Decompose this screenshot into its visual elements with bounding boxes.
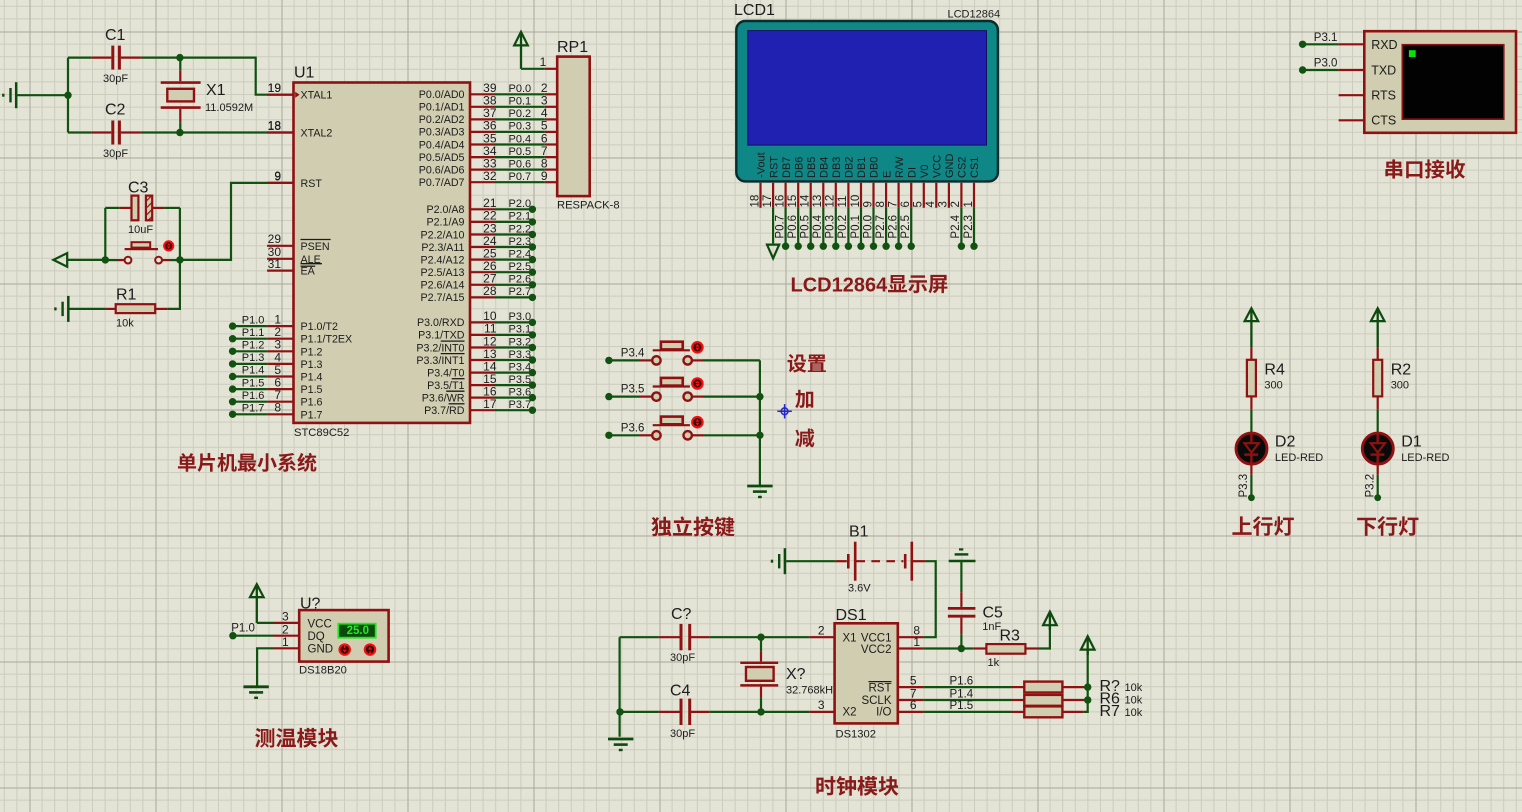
pin ALE (30)	[267, 245, 322, 266]
svg-text:28: 28	[483, 284, 497, 298]
svg-text:P1.5: P1.5	[301, 384, 323, 396]
svg-text:P1.3: P1.3	[242, 352, 265, 364]
svg-text:P3.3/INT1: P3.3/INT1	[416, 355, 464, 367]
svg-text:P0.4: P0.4	[812, 214, 824, 238]
svg-text:3.6V: 3.6V	[848, 583, 871, 595]
LCD pin E (8)	[875, 171, 893, 250]
origin marker	[777, 404, 791, 418]
svg-text:R1: R1	[116, 286, 137, 303]
LED D1 LED-RED	[1362, 433, 1449, 464]
svg-text:11: 11	[837, 196, 849, 208]
svg-text:RESPACK-8: RESPACK-8	[557, 200, 620, 212]
crystal X1 11.0592M	[161, 58, 253, 133]
svg-text:P3.5/T1: P3.5/T1	[427, 380, 464, 392]
wire LED to node P3.2	[1377, 463, 1379, 495]
svg-text:P3.0/RXD: P3.0/RXD	[417, 317, 465, 329]
svg-text:GND: GND	[944, 154, 956, 179]
svg-text:2: 2	[818, 623, 825, 637]
pin P0.3/AD3 (36) wire to RP1 pin 5	[419, 119, 557, 139]
node P3.2	[1364, 474, 1381, 501]
svg-text:P1.4: P1.4	[301, 372, 323, 384]
wire C1 to node	[141, 56, 180, 58]
svg-text:RST: RST	[768, 156, 780, 178]
wire button to common	[692, 434, 760, 436]
pin P0.4/AD4 (35) wire to RP1 pin 6	[419, 131, 557, 151]
wire R6 to rail	[1062, 699, 1087, 701]
svg-text:VCC: VCC	[308, 618, 332, 630]
svg-text:P0.5: P0.5	[800, 215, 812, 239]
svg-text:5: 5	[913, 201, 925, 207]
wire battery to VCC1	[923, 561, 936, 637]
wire resistor to LED	[1250, 409, 1252, 432]
svg-text:RXD: RXD	[1371, 38, 1397, 52]
pin P2.4/A12 (25)	[421, 246, 537, 266]
svg-text:P0.5: P0.5	[509, 146, 532, 158]
pin P0.6/AD6 (33) wire to RP1 pin 8	[419, 156, 557, 176]
svg-text:6: 6	[900, 201, 912, 207]
pin P0.7/AD7 (32) wire to RP1 pin 9	[419, 169, 557, 189]
svg-text:P3.3: P3.3	[509, 349, 532, 361]
svg-text:31: 31	[268, 257, 282, 271]
wire GND pin 1 to ground	[257, 648, 299, 685]
svg-text:P0.0: P0.0	[509, 83, 532, 95]
pin P3.2/INT0 (12)	[416, 334, 536, 354]
pin P3.1/TXD (11)	[418, 322, 536, 342]
svg-text:RTS: RTS	[1371, 89, 1396, 103]
wire R? to rail	[1062, 686, 1087, 688]
caption MCU minimal system	[178, 453, 316, 472]
svg-text:P3.4: P3.4	[509, 361, 532, 373]
caption independent keys	[651, 516, 734, 536]
caption LCD12864 display	[791, 274, 948, 296]
svg-text:10: 10	[850, 195, 862, 208]
svg-text:R7: R7	[1100, 703, 1121, 720]
svg-text:P0.1: P0.1	[509, 96, 532, 108]
svg-text:VCC2: VCC2	[861, 644, 892, 656]
LCD pin DB3 (12)	[825, 157, 843, 250]
pin P1.4 (5)	[229, 363, 323, 384]
LCD pin CS2 (2)	[950, 157, 968, 250]
svg-text:11.0592M: 11.0592M	[205, 102, 253, 114]
pin P2.5/A13 (26)	[421, 259, 537, 279]
wire button to common	[692, 359, 760, 361]
LCD pin DB2 (11)	[837, 157, 855, 250]
svg-text:DB4: DB4	[819, 157, 831, 178]
pin 7 wire P1.4 to R6	[898, 686, 1025, 700]
push button P3.6	[652, 417, 702, 440]
svg-text:P0.6/AD6: P0.6/AD6	[419, 164, 465, 176]
svg-text:VCC: VCC	[932, 155, 944, 178]
caption plus	[795, 390, 813, 409]
svg-text:P1.2: P1.2	[301, 346, 323, 358]
svg-text:P1.4: P1.4	[950, 688, 974, 700]
svg-text:PSEN: PSEN	[301, 241, 330, 253]
LCD pin DB0 (9)	[862, 157, 880, 250]
svg-text:DB2: DB2	[844, 157, 856, 178]
svg-text:-Vout: -Vout	[756, 152, 768, 178]
pin RST (9)	[267, 169, 322, 190]
svg-text:10k: 10k	[1125, 682, 1143, 694]
svg-text:RP1: RP1	[557, 39, 588, 56]
svg-text:P2.0: P2.0	[509, 198, 532, 210]
pin EA (31)	[267, 257, 316, 278]
wire power to VCC pin 3	[257, 622, 299, 624]
pin P2.1/A9 (22)	[426, 209, 536, 229]
svg-text:C4: C4	[670, 683, 691, 700]
svg-text:LCD1: LCD1	[734, 2, 775, 19]
wire C3 left to button	[104, 208, 106, 260]
temperature sensor U? DS18B20	[299, 596, 389, 677]
pin P3.4/T0 (14)	[427, 359, 536, 379]
LCD LCD1 LCD12864	[734, 2, 1000, 181]
pin PSEN (29)	[267, 232, 331, 253]
svg-text:25.0: 25.0	[347, 625, 369, 637]
ground (DS18B20)	[243, 687, 268, 698]
svg-text:P2.1/A9: P2.1/A9	[426, 217, 464, 229]
battery B1 3.6V	[835, 523, 925, 594]
svg-text:3: 3	[818, 698, 825, 712]
power arrow (pull-up rail)	[1081, 636, 1095, 655]
pin P3.5/T1 (15)	[427, 372, 536, 392]
svg-text:P1.5: P1.5	[242, 377, 265, 389]
resistor R2 300	[1373, 347, 1411, 409]
svg-text:9: 9	[274, 169, 281, 183]
svg-text:CS2: CS2	[957, 157, 969, 178]
wire C3 right to button/R1	[179, 208, 181, 260]
ground (above C5)	[949, 549, 976, 561]
wire X2 row	[620, 711, 835, 713]
svg-text:300: 300	[1391, 379, 1409, 391]
wire R1 to button node	[167, 260, 180, 309]
pin P1.6 (7)	[229, 388, 323, 409]
node rail R?	[1084, 683, 1091, 690]
caption set	[788, 354, 826, 373]
svg-text:2: 2	[950, 201, 962, 207]
svg-text:LED-RED: LED-RED	[1275, 452, 1323, 464]
svg-text:C3: C3	[128, 180, 149, 197]
LCD pin VCC (4)	[925, 155, 943, 208]
svg-text:P1.7: P1.7	[242, 403, 265, 415]
LCD pin DB7 (16)	[774, 157, 792, 250]
node button right	[176, 256, 183, 263]
pin marker XTAL1	[295, 92, 299, 98]
node P3.3	[1238, 474, 1255, 501]
LCD pin V0 (5)	[913, 165, 931, 208]
wire ground to junction	[17, 94, 68, 96]
node XTAL2 junction	[176, 129, 183, 136]
svg-text:P2.3: P2.3	[509, 236, 532, 248]
pin number 1	[540, 55, 547, 69]
svg-text:12: 12	[825, 195, 837, 208]
pin number 18	[268, 119, 282, 133]
svg-text:VCC1: VCC1	[861, 633, 892, 645]
resistor R? 10k	[1024, 682, 1062, 693]
svg-text:P0.3/AD3: P0.3/AD3	[419, 127, 465, 139]
svg-text:10k: 10k	[1125, 695, 1143, 707]
wire P1.0 to DQ pin 2	[233, 635, 299, 637]
svg-text:ALE: ALE	[301, 254, 321, 266]
svg-text:R3: R3	[1000, 628, 1021, 645]
wire left vertical to ground	[618, 637, 620, 737]
svg-text:C1: C1	[105, 27, 126, 44]
node C5/VCC2	[958, 645, 965, 652]
svg-text:P0.7: P0.7	[774, 215, 786, 239]
svg-text:SCLK: SCLK	[861, 695, 891, 707]
svg-text:32.768kHz: 32.768kHz	[786, 684, 839, 696]
svg-text:P1.6: P1.6	[301, 397, 323, 409]
resistor R4 300	[1247, 347, 1285, 409]
LCD pin DI (6)	[900, 167, 918, 250]
svg-text:P3.4/T0: P3.4/T0	[427, 367, 464, 379]
LCD pin DB1 (10)	[850, 157, 868, 250]
svg-text:P0.7/AD7: P0.7/AD7	[419, 177, 465, 189]
svg-text:10uF: 10uF	[128, 224, 153, 236]
svg-text:P1.1: P1.1	[242, 327, 265, 339]
svg-text:DB5: DB5	[806, 157, 818, 178]
wire common vertical to ground	[759, 360, 761, 485]
microcontroller U1 STC89C52	[294, 65, 471, 440]
svg-text:P1.0: P1.0	[231, 623, 255, 635]
svg-text:17: 17	[762, 195, 774, 208]
wire P3.5 to button	[609, 396, 652, 398]
svg-text:4: 4	[925, 201, 937, 208]
power arrow (R4)	[1245, 308, 1259, 347]
rtc DS1 DS1302	[835, 607, 898, 740]
svg-text:C2: C2	[105, 102, 126, 119]
ground (clock)	[608, 739, 633, 750]
ground (left of C1/C2)	[3, 82, 16, 108]
svg-text:P2.6/A14: P2.6/A14	[421, 280, 465, 292]
svg-text:DS1302: DS1302	[836, 728, 876, 740]
node P1.0	[229, 623, 255, 640]
svg-text:1: 1	[913, 635, 920, 649]
svg-text:C?: C?	[671, 606, 692, 623]
power arrow (R2)	[1371, 308, 1385, 347]
wire node to XTAL2 pin	[141, 131, 294, 133]
svg-text:GND: GND	[308, 644, 334, 656]
svg-text:DS1: DS1	[836, 607, 867, 624]
pin P3.7/RD (17)	[424, 397, 536, 417]
pin number 3	[818, 698, 825, 712]
power arrow (DS18B20)	[250, 584, 264, 623]
node P3.4	[605, 348, 645, 365]
svg-text:DS18B20: DS18B20	[299, 664, 347, 676]
wire LED to node P3.3	[1250, 463, 1252, 495]
svg-text:P2.4: P2.4	[509, 248, 532, 260]
pin 6 wire P1.5 to R7	[898, 698, 1025, 712]
svg-text:U?: U?	[300, 596, 321, 613]
svg-text:P3.6: P3.6	[621, 422, 645, 434]
svg-text:P3.7: P3.7	[509, 399, 532, 411]
serial terminal (virtual terminal)	[1364, 31, 1516, 133]
capacitor C? 30pF	[659, 606, 710, 664]
svg-text:P3.0: P3.0	[509, 311, 532, 323]
labels R? R6 R7 10k	[1100, 678, 1143, 720]
pin P2.6/A14 (27)	[421, 272, 537, 292]
svg-text:300: 300	[1264, 379, 1282, 391]
LED D2 LED-RED	[1236, 433, 1323, 464]
pin number 3	[282, 610, 289, 624]
svg-text:XTAL1: XTAL1	[301, 90, 333, 102]
svg-text:P1.0/T2: P1.0/T2	[301, 321, 338, 333]
capacitor C2 30pF	[68, 102, 141, 160]
svg-text:P0.6: P0.6	[509, 158, 532, 170]
svg-text:I/O: I/O	[876, 707, 891, 719]
svg-text:6: 6	[910, 698, 917, 712]
svg-text:P1.4: P1.4	[242, 365, 265, 377]
svg-text:P2.5/A13: P2.5/A13	[421, 267, 465, 279]
pin P1.7 (8)	[229, 401, 323, 422]
pin 5 wire P1.6 to R?	[898, 673, 1025, 687]
svg-text:P2.0/A8: P2.0/A8	[426, 204, 464, 216]
wire P3.0 to TXD	[1299, 58, 1364, 74]
svg-text:3: 3	[938, 201, 950, 207]
power arrow (RP1 pin 1)	[514, 32, 528, 69]
caption lamp	[1232, 516, 1293, 536]
svg-text:EA: EA	[301, 266, 316, 278]
svg-text:30pF: 30pF	[670, 728, 695, 740]
svg-text:P0.7: P0.7	[509, 171, 532, 183]
svg-text:DI: DI	[906, 167, 918, 178]
svg-text:DB0: DB0	[869, 157, 881, 178]
svg-text:P0.3: P0.3	[825, 215, 837, 239]
svg-text:DB3: DB3	[831, 157, 843, 178]
svg-text:8: 8	[274, 401, 281, 415]
svg-text:X?: X?	[786, 666, 806, 683]
wire button to common	[692, 396, 760, 398]
caption serial receive	[1385, 159, 1465, 178]
svg-text:P0.4: P0.4	[509, 133, 532, 145]
wire R7 to rail	[1062, 650, 1087, 712]
pin P1.1/T2EX (2)	[229, 325, 352, 346]
resistor R1 10k	[70, 286, 168, 329]
pin P0.0/AD0 (39) wire to RP1 pin 2	[419, 81, 557, 101]
pin P0.1/AD1 (38) wire to RP1 pin 3	[419, 94, 557, 114]
svg-text:30pF: 30pF	[103, 148, 128, 160]
svg-text:1: 1	[963, 201, 975, 207]
pin P1.5 (6)	[229, 376, 323, 397]
svg-text:P1.3: P1.3	[301, 359, 323, 371]
pin number 2	[282, 622, 289, 636]
svg-text:30pF: 30pF	[103, 73, 128, 85]
svg-text:P2.1: P2.1	[509, 211, 532, 223]
svg-text:DB1: DB1	[856, 157, 868, 178]
svg-text:DB6: DB6	[793, 157, 805, 178]
svg-text:E: E	[881, 171, 893, 178]
pin number 19	[268, 81, 282, 95]
svg-text:P3.2: P3.2	[1364, 474, 1376, 498]
pin VCC2 (1) wire to R3	[898, 635, 962, 649]
svg-text:P3.1: P3.1	[509, 324, 532, 336]
ground (buttons)	[747, 486, 772, 497]
capacitor C1 30pF	[68, 27, 141, 85]
svg-text:P3.7/RD: P3.7/RD	[424, 405, 465, 417]
svg-text:LED-RED: LED-RED	[1401, 452, 1449, 464]
svg-text:D2: D2	[1275, 433, 1296, 450]
resistor R3 1k	[961, 628, 1038, 670]
pin P2.0/A8 (21)	[426, 196, 536, 216]
node button left	[102, 256, 109, 263]
ground (left of R1)	[55, 296, 68, 322]
svg-text:DQ: DQ	[308, 631, 325, 643]
svg-text:P0.2/AD2: P0.2/AD2	[419, 114, 465, 126]
svg-text:P0.1: P0.1	[850, 215, 862, 239]
svg-text:P0.0: P0.0	[862, 215, 874, 239]
svg-text:LCD12864: LCD12864	[791, 274, 889, 296]
pin P2.7/A15 (28)	[421, 284, 537, 304]
svg-text:9: 9	[541, 169, 548, 183]
pin P0.2/AD2 (37) wire to RP1 pin 4	[419, 106, 557, 126]
svg-text:C5: C5	[983, 605, 1004, 622]
svg-text:STC89C52: STC89C52	[294, 427, 349, 439]
svg-text:P2.7: P2.7	[509, 286, 532, 298]
svg-text:D1: D1	[1401, 433, 1422, 450]
svg-text:CTS: CTS	[1371, 114, 1396, 128]
svg-text:RST: RST	[301, 178, 323, 190]
svg-text:X2: X2	[843, 707, 857, 719]
caption clock module	[816, 776, 898, 796]
node X2/crystal	[757, 708, 764, 715]
capacitor C3 10uF (polarized)	[105, 180, 180, 236]
svg-text:P1.7: P1.7	[301, 409, 323, 421]
svg-text:P0.6: P0.6	[787, 215, 799, 239]
LCD pin DB4 (13)	[812, 157, 830, 250]
svg-text:U1: U1	[294, 65, 315, 82]
svg-text:P2.3: P2.3	[963, 215, 975, 239]
pin P1.2 (3)	[229, 338, 323, 359]
caption minus	[795, 429, 814, 448]
svg-text:X1: X1	[206, 82, 226, 99]
LCD pin CS1 (1)	[963, 157, 981, 250]
LCD pin RST (17)	[762, 156, 780, 259]
svg-text:P1.6: P1.6	[242, 390, 265, 402]
svg-text:17: 17	[483, 397, 497, 411]
svg-text:P1.1/T2EX: P1.1/T2EX	[301, 334, 353, 346]
wire X1 row	[620, 636, 835, 638]
svg-text:18: 18	[268, 119, 282, 133]
pin VCC1 (8)	[898, 623, 923, 637]
svg-text:10k: 10k	[116, 318, 134, 330]
svg-text:RST: RST	[869, 682, 892, 694]
wire ground to battery	[786, 560, 835, 562]
pin P2.3/A11 (24)	[421, 234, 536, 254]
svg-text:TXD: TXD	[1371, 63, 1396, 77]
node rail R6	[1084, 696, 1091, 703]
svg-text:P3.3: P3.3	[1238, 474, 1250, 498]
svg-text:P3.6/WR: P3.6/WR	[422, 392, 465, 404]
pin P1.0/T2 (1)	[229, 313, 338, 334]
svg-text:32: 32	[483, 169, 497, 183]
resistor R6 10k	[1024, 695, 1062, 706]
svg-text:P3.5: P3.5	[509, 374, 532, 386]
svg-text:1k: 1k	[988, 657, 1000, 669]
svg-text:8: 8	[875, 201, 887, 207]
svg-text:30pF: 30pF	[670, 652, 695, 664]
svg-text:1: 1	[540, 55, 547, 69]
pin XTAL1 (19)	[267, 81, 332, 102]
pin P2.2/A10 (23)	[421, 221, 537, 241]
svg-text:XTAL2: XTAL2	[301, 128, 333, 140]
svg-text:9: 9	[862, 201, 874, 207]
push button P3.4	[652, 342, 702, 365]
svg-text:P2.2/A10: P2.2/A10	[421, 229, 465, 241]
svg-text:P3.4: P3.4	[621, 348, 645, 360]
LCD pin DB6 (15)	[787, 157, 805, 250]
svg-text:5: 5	[910, 673, 917, 687]
pin P3.6/WR (16)	[422, 384, 536, 404]
svg-text:P1.2: P1.2	[242, 340, 265, 352]
svg-text:B1: B1	[849, 523, 869, 540]
